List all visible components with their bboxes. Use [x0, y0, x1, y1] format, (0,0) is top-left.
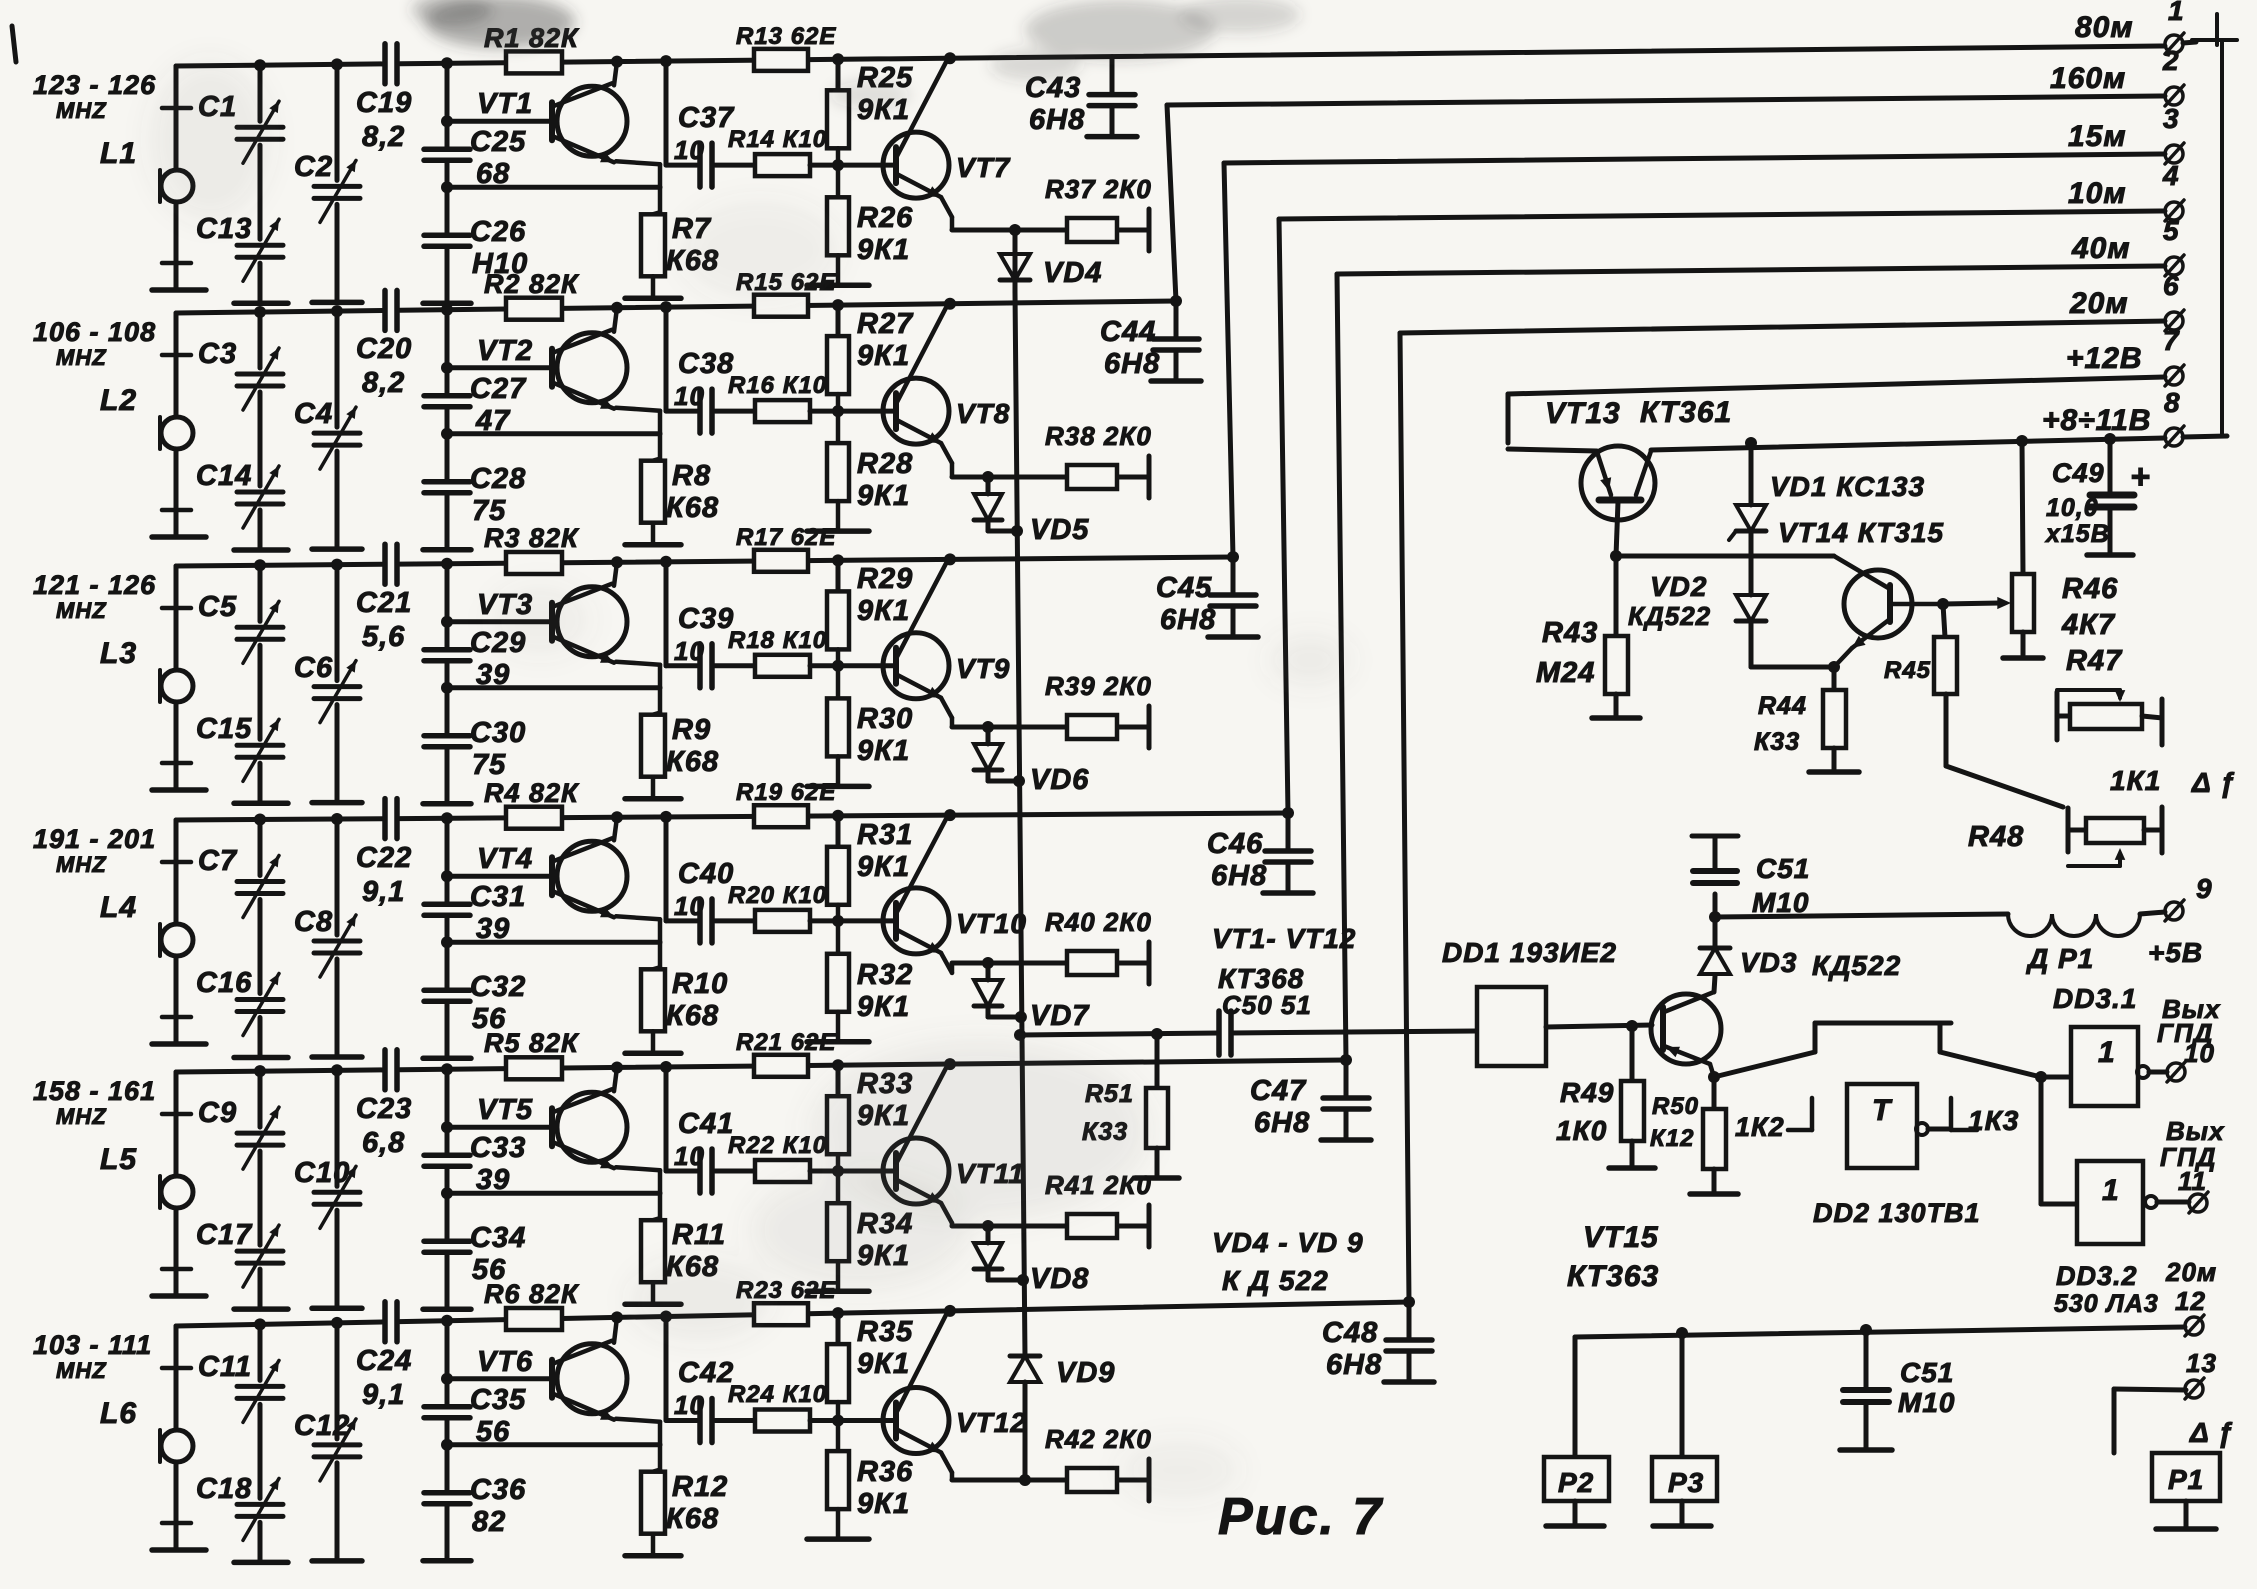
svg-text:C19: C19 — [356, 87, 412, 119]
svg-text:13: 13 — [2186, 1348, 2217, 1378]
svg-text:R9: R9 — [672, 714, 711, 746]
capacitor C50 51 — [1216, 1011, 1222, 1055]
capacitor C33 39 — [424, 1152, 470, 1158]
svg-text:9: 9 — [2196, 873, 2213, 904]
terminal bar R39 — [1147, 706, 1152, 748]
svg-text:МНZ: МНZ — [56, 852, 107, 877]
svg-text:КД522: КД522 — [1812, 950, 1901, 981]
svg-text:68: 68 — [476, 158, 510, 190]
wire collector VT13 — [1616, 502, 1618, 556]
variable capacitor C12 — [314, 1442, 360, 1447]
svg-text:+: + — [2130, 458, 2151, 496]
svg-text:C33: C33 — [470, 1132, 526, 1164]
capacitor C30 75 — [424, 733, 470, 739]
resistor R44 К33 — [1832, 667, 1837, 690]
resistor R6 — [506, 1308, 562, 1330]
ground R34 — [807, 1288, 869, 1294]
svg-text:8,2: 8,2 — [362, 367, 405, 399]
transistor VT12 — [883, 1388, 949, 1454]
coil circle L2 — [161, 417, 193, 449]
svg-text:106 - 108: 106 - 108 — [33, 317, 156, 347]
svg-text:Р2: Р2 — [1558, 1467, 1594, 1498]
capacitor C38 10 — [666, 409, 697, 414]
svg-text:123 - 126: 123 - 126 — [33, 70, 156, 100]
capacitor C48 6Н8 — [1403, 1296, 1415, 1308]
svg-text:L3: L3 — [100, 637, 137, 670]
resistor R14 К10 — [755, 154, 810, 176]
switch 1К2 lever — [1714, 1052, 1815, 1077]
svg-text:VT10: VT10 — [956, 908, 1027, 939]
tick C9 top — [162, 1112, 191, 1117]
svg-text:R26: R26 — [857, 202, 913, 234]
coil circle L6 — [161, 1430, 193, 1462]
svg-text:75: 75 — [472, 749, 506, 781]
ground C36 — [423, 1558, 471, 1564]
wire band line 3 horizontal — [1224, 154, 2165, 163]
svg-text:DD1 193ИЕ2: DD1 193ИЕ2 — [1442, 937, 1617, 968]
transistor VT10 — [883, 888, 949, 954]
inductor L6 rail — [174, 1326, 179, 1430]
svg-text:МНZ: МНZ — [56, 345, 107, 370]
svg-text:VD6: VD6 — [1030, 764, 1089, 796]
emitter VT5 — [553, 1142, 614, 1168]
capacitor C46 6Н8 — [1282, 807, 1294, 819]
resistor R23 — [754, 1303, 808, 1325]
svg-text:R46: R46 — [2062, 573, 2118, 605]
wire column C3/C14 — [254, 306, 266, 318]
svg-text:82: 82 — [472, 1506, 506, 1538]
svg-text:39: 39 — [476, 659, 510, 691]
wire collector VT5 — [614, 1068, 617, 1092]
svg-text:М10: М10 — [1752, 887, 1809, 918]
svg-text:R28: R28 — [857, 448, 913, 480]
svg-text:+12В: +12В — [2066, 342, 2143, 375]
svg-text:10: 10 — [674, 1141, 705, 1171]
ground R28 — [807, 528, 869, 534]
wire column C4 — [331, 305, 343, 317]
svg-text:56: 56 — [476, 1416, 510, 1448]
svg-text:11: 11 — [2178, 1166, 2207, 1196]
node divider row3 — [832, 554, 844, 566]
svg-text:VD3: VD3 — [1740, 947, 1797, 978]
scan smudge blobs — [412, 0, 1300, 109]
wire emitter node row4 — [952, 961, 1067, 966]
ground C34 — [423, 1306, 471, 1312]
svg-text:C20: C20 — [356, 333, 412, 365]
svg-text:R44: R44 — [1758, 692, 1807, 720]
inductor L1 rail — [174, 66, 179, 170]
svg-text:Δ ƒ: Δ ƒ — [2189, 1417, 2234, 1448]
svg-text:К68: К68 — [666, 492, 719, 524]
resistor R42 2К0 — [1067, 1468, 1117, 1492]
svg-text:Рис. 7: Рис. 7 — [1218, 1488, 1383, 1546]
svg-text:R20 К10: R20 К10 — [728, 882, 827, 909]
svg-text:R17 62Е: R17 62Е — [736, 524, 836, 551]
wire collector VT15 to VD3 — [1714, 976, 1715, 992]
wire column C12 — [331, 1317, 343, 1329]
resistor R19 — [754, 805, 808, 827]
svg-text:VT13: VT13 — [1545, 397, 1621, 430]
wire switch top link — [1813, 1023, 1818, 1052]
wire VD8 to rail — [988, 1278, 1023, 1283]
coil circle L3 — [161, 670, 193, 702]
svg-text:R8: R8 — [672, 460, 711, 492]
capacitor C40 10 — [666, 918, 697, 923]
transistor VT1 — [557, 86, 627, 156]
svg-text:L5: L5 — [100, 1143, 137, 1176]
svg-text:4: 4 — [2162, 160, 2180, 191]
resistor R33 9К1 — [827, 1096, 849, 1154]
svg-text:VD1 КС133: VD1 КС133 — [1770, 471, 1925, 502]
ground R26 — [807, 283, 869, 289]
svg-text:15м: 15м — [2068, 120, 2127, 153]
variable capacitor C18 — [237, 1502, 283, 1507]
svg-text:КТ361: КТ361 — [1640, 396, 1732, 429]
resistor R2 — [506, 298, 562, 320]
wire row5 supply bus — [176, 1070, 385, 1072]
transistor VT7 — [883, 132, 949, 198]
resistor R29 9К1 — [827, 591, 849, 649]
variable capacitor C4 — [314, 431, 360, 436]
wire VD7 to rail — [988, 1015, 1021, 1020]
resistor R50 К12 — [1708, 1071, 1720, 1083]
svg-text:C30: C30 — [470, 717, 526, 749]
svg-text:R40 2К0: R40 2К0 — [1045, 907, 1152, 937]
ground R30 — [807, 784, 869, 790]
transistor VT8 — [883, 378, 949, 444]
wire VD6 to rail — [988, 779, 1019, 784]
ground C18 — [234, 1560, 288, 1566]
wire row3 supply bus — [176, 564, 385, 566]
variable capacitor C16 — [237, 997, 283, 1002]
wire band line 2 vertical — [1167, 105, 1176, 301]
svg-text:КТ368: КТ368 — [1218, 963, 1304, 994]
resistor R10 К68 — [653, 967, 660, 969]
variable capacitor C14 — [237, 490, 283, 495]
resistor R43 М24 — [1614, 556, 1619, 636]
coil circle L4 — [161, 924, 193, 956]
wire feedback row6 — [447, 1442, 660, 1447]
ground C32 — [423, 1056, 471, 1062]
wire DD1 output to VT15 — [1546, 1025, 1652, 1027]
resistor R5 — [506, 1057, 562, 1079]
svg-text:VT1- VT12: VT1- VT12 — [1212, 923, 1356, 954]
svg-text:VT8: VT8 — [956, 398, 1010, 429]
ground C16 — [234, 1055, 288, 1061]
svg-text:М10: М10 — [1898, 1387, 1955, 1418]
svg-text:VT2: VT2 — [477, 335, 533, 367]
svg-text:VT14 КТ315: VT14 КТ315 — [1778, 517, 1944, 548]
svg-text:С49: С49 — [2052, 458, 2105, 488]
wire VT13 collector to VT14 — [1616, 554, 1834, 559]
switch 1К3 lever — [1940, 1052, 2041, 1077]
svg-text:R43: R43 — [1542, 617, 1598, 649]
svg-text:9К1: 9К1 — [857, 595, 910, 627]
svg-text:R2 82К: R2 82К — [484, 269, 580, 299]
emitter VT9 — [897, 675, 941, 698]
tick C18 bottom — [162, 1521, 191, 1526]
terminal 5 40м — [2165, 257, 2183, 275]
svg-text:VT6: VT6 — [477, 1346, 533, 1378]
svg-text:МНZ: МНZ — [56, 598, 107, 623]
svg-text:L2: L2 — [100, 384, 137, 417]
svg-text:К68: К68 — [666, 1000, 719, 1032]
ground rail row6 — [152, 1547, 206, 1553]
svg-text:80м: 80м — [2075, 11, 2134, 44]
resistor R36 9К1 — [827, 1451, 849, 1509]
svg-text:9К1: 9К1 — [857, 1488, 910, 1520]
resistor R25 9К1 — [827, 90, 849, 148]
svg-text:C9: C9 — [198, 1097, 237, 1129]
svg-text:C17: C17 — [196, 1219, 253, 1251]
svg-text:КТ363: КТ363 — [1567, 1260, 1659, 1293]
svg-text:VD2: VD2 — [1650, 571, 1707, 602]
coil circle L5 — [161, 1176, 193, 1208]
capacitor C39 10 — [666, 663, 697, 668]
wire frame right vertical — [2220, 40, 2224, 436]
wire feedback row1 — [447, 185, 660, 190]
resistor R46 4К7 — [2016, 435, 2028, 447]
svg-text:Д Р1: Д Р1 — [2026, 943, 2094, 974]
resistor R16 К10 — [755, 400, 810, 422]
svg-text:R38 2К0: R38 2К0 — [1045, 421, 1152, 451]
svg-text:VT12: VT12 — [956, 1407, 1027, 1438]
resistor R35 9К1 — [827, 1344, 849, 1402]
svg-text:10: 10 — [2184, 1038, 2215, 1068]
svg-text:9К1: 9К1 — [857, 234, 910, 266]
svg-text:VT1: VT1 — [477, 88, 533, 120]
diode VD1 КС133 — [1745, 437, 1757, 449]
wire column C11/C18 — [254, 1318, 266, 1330]
svg-text:R45: R45 — [1884, 657, 1931, 684]
svg-text:R42 2К0: R42 2К0 — [1045, 1424, 1152, 1454]
node VD9 rail to emitter line — [1019, 1474, 1031, 1486]
terminal bar R38 — [1147, 456, 1152, 498]
svg-text:C24: C24 — [356, 1345, 412, 1377]
wire column C7/C16 — [254, 814, 266, 826]
svg-text:R32: R32 — [857, 959, 913, 991]
capacitor C42 10 — [666, 1418, 697, 1423]
tick C7 top — [162, 860, 191, 865]
svg-text:C4: C4 — [294, 398, 333, 430]
terminal 11 Вых ГПД — [2189, 1194, 2207, 1212]
wire emitter node row6 — [952, 1478, 1067, 1483]
node C-branch row4 — [660, 811, 672, 823]
variable capacitor C7 — [237, 879, 283, 884]
svg-text:C10: C10 — [294, 1157, 350, 1189]
ground C26 — [423, 301, 471, 307]
svg-text:C21: C21 — [356, 587, 412, 619]
svg-text:R36: R36 — [857, 1456, 913, 1488]
svg-text:40м: 40м — [2071, 232, 2131, 265]
svg-text:C37: C37 — [678, 102, 735, 134]
capacitor C51 М10 lower — [1860, 1324, 1872, 1336]
resistor R38 2К0 — [1067, 465, 1117, 489]
wire base VT4 — [447, 874, 552, 879]
wire base VT7 — [810, 163, 896, 168]
terminal 4 10м — [2165, 202, 2183, 220]
capacitor C19 8,2 — [382, 44, 388, 84]
svg-text:530 ЛА3: 530 ЛА3 — [2054, 1290, 2159, 1318]
diode VD3 КД522 — [1700, 946, 1730, 951]
variable capacitor C6 — [314, 684, 360, 689]
svg-text:C16: C16 — [196, 967, 252, 999]
wire emitter node row2 — [952, 475, 1067, 480]
transistor VT5 — [557, 1092, 627, 1162]
variable capacitor C1 — [237, 125, 283, 130]
wire collector VT2 — [614, 308, 617, 332]
wire feedback row4 — [447, 940, 660, 945]
terminal bar R41 — [1147, 1205, 1152, 1247]
contact bar 1К2 — [1810, 1098, 1815, 1130]
diode VD9 — [1010, 1354, 1040, 1359]
transistor VT14 КТ315 — [1844, 570, 1912, 638]
svg-text:10: 10 — [674, 1390, 705, 1420]
wire base VT12 — [810, 1418, 896, 1423]
resistor R28 9К1 — [827, 443, 849, 501]
svg-text:C41: C41 — [678, 1108, 734, 1140]
node C-branch row6 — [660, 1311, 672, 1323]
capacitor C26 Н10 — [424, 233, 470, 239]
svg-text:C44: C44 — [1100, 316, 1156, 348]
svg-text:9К1: 9К1 — [857, 851, 910, 883]
svg-text:20м: 20м — [2069, 287, 2129, 320]
wire emitter node row1 — [952, 228, 1067, 233]
capacitor C32 56 — [424, 988, 470, 994]
gate DD3.1 — [2035, 1071, 2047, 1083]
wire collector VT3 — [614, 562, 617, 586]
ground R32 — [807, 1039, 869, 1045]
svg-text:1К0: 1К0 — [1556, 1115, 1607, 1146]
wire terminal 8 right — [2183, 436, 2227, 437]
terminal 10 Вых ГПД — [2167, 1063, 2185, 1081]
svg-text:4К7: 4К7 — [2061, 609, 2116, 641]
tick C5 top — [162, 606, 191, 611]
transistor VT4 — [557, 841, 627, 911]
emitter VT8 — [897, 420, 941, 443]
capacitor C23 6,8 — [382, 1050, 388, 1090]
resistor R27 9К1 — [827, 336, 849, 394]
svg-text:+8÷11В: +8÷11В — [2042, 404, 2151, 437]
wire column C2 — [331, 58, 343, 70]
capacitor C25 68 — [424, 147, 470, 153]
resistor R51 К33 — [1151, 1028, 1163, 1040]
transistor VT13 КТ361 — [1581, 446, 1655, 520]
tick C16 bottom — [162, 1015, 191, 1020]
svg-text:VT15: VT15 — [1583, 1221, 1659, 1254]
terminal 2 160м — [2165, 87, 2183, 105]
svg-text:C14: C14 — [196, 460, 252, 492]
wire feedback row3 — [447, 685, 660, 690]
node C-branch row1 — [660, 55, 672, 67]
wire emitter node row3 — [952, 725, 1067, 730]
node divider row4 — [832, 810, 844, 822]
wire band line 3 vertical — [1224, 163, 1233, 557]
svg-text:C18: C18 — [196, 1473, 252, 1505]
svg-text:1К2: 1К2 — [1735, 1112, 1785, 1142]
svg-text:R39 2К0: R39 2К0 — [1045, 671, 1152, 701]
diode VD7 — [982, 957, 994, 969]
coil circle L1 — [161, 170, 193, 202]
svg-text:5,6: 5,6 — [362, 621, 405, 653]
wire +12В line — [1508, 377, 2165, 394]
inductor L3 rail — [174, 566, 179, 670]
ground C13 — [234, 300, 288, 306]
svg-text:VD8: VD8 — [1030, 1263, 1089, 1295]
svg-text:1К1: 1К1 — [2110, 765, 2161, 796]
svg-text:C27: C27 — [470, 373, 527, 405]
tick C1 top — [162, 106, 191, 111]
wire terminal 1 right — [2183, 42, 2196, 43]
svg-text:9К1: 9К1 — [857, 1348, 910, 1380]
svg-text:160м: 160м — [2050, 62, 2126, 95]
capacitor C29 39 — [424, 647, 470, 653]
wire band line 4 horizontal — [1279, 211, 2165, 219]
svg-text:9К1: 9К1 — [857, 340, 910, 372]
svg-text:C42: C42 — [678, 1357, 734, 1389]
svg-text:Δ ƒ: Δ ƒ — [2191, 767, 2236, 798]
svg-text:VD7: VD7 — [1030, 1000, 1090, 1032]
svg-text:103 - 111: 103 - 111 — [33, 1330, 152, 1360]
svg-text:R6 82К: R6 82К — [484, 1279, 580, 1309]
svg-text:9,1: 9,1 — [362, 876, 405, 908]
svg-text:х15В: х15В — [2044, 520, 2110, 548]
svg-text:R35: R35 — [857, 1316, 913, 1348]
scan stroke top left — [12, 26, 16, 62]
ground C14 — [234, 547, 288, 553]
svg-text:6Н8: 6Н8 — [1254, 1107, 1310, 1139]
svg-text:C50 51: C50 51 — [1222, 990, 1312, 1020]
svg-text:C38: C38 — [678, 348, 734, 380]
terminal 12 — [2185, 1317, 2203, 1335]
svg-text:C23: C23 — [356, 1093, 412, 1125]
variable capacitor C15 — [237, 743, 283, 748]
svg-text:R30: R30 — [857, 703, 913, 735]
svg-text:6Н8: 6Н8 — [1211, 860, 1267, 892]
resistor R40 2К0 — [1067, 951, 1117, 975]
resistor R45 — [1943, 604, 1945, 637]
capacitor C21 5,6 — [382, 544, 388, 584]
resistor R1 — [506, 51, 562, 73]
svg-text:C31: C31 — [470, 881, 526, 913]
wire column C5/C15 — [254, 559, 266, 571]
wire column C10 — [331, 1064, 343, 1076]
svg-text:47: 47 — [475, 405, 511, 437]
wire band line 5 horizontal — [1337, 266, 2165, 274]
svg-text:R11: R11 — [672, 1219, 726, 1251]
transistor VT9 — [883, 633, 949, 699]
contact bar 1К3 — [1949, 1098, 1954, 1130]
capacitor C41 10 — [666, 1169, 697, 1174]
svg-text:C3: C3 — [198, 338, 237, 370]
diode VD8 — [982, 1220, 994, 1232]
svg-text:C12: C12 — [294, 1410, 350, 1442]
wire base VT8 — [810, 409, 896, 414]
variable capacitor C8 — [314, 939, 360, 944]
svg-text:VD4 - VD 9: VD4 - VD 9 — [1212, 1227, 1364, 1258]
svg-text:R27: R27 — [857, 308, 914, 340]
resistor R9 К68 — [653, 713, 660, 715]
ground C8 — [312, 1054, 362, 1060]
node C-branch row3 — [660, 556, 672, 568]
wire feedback row2 — [447, 431, 660, 436]
terminal 13 and Δf — [2185, 1380, 2203, 1398]
node base column row5 — [441, 1063, 453, 1075]
svg-text:R49: R49 — [1560, 1077, 1614, 1108]
svg-text:8,2: 8,2 — [362, 121, 405, 153]
variable capacitor C11 — [237, 1384, 283, 1389]
svg-text:C39: C39 — [678, 603, 734, 635]
